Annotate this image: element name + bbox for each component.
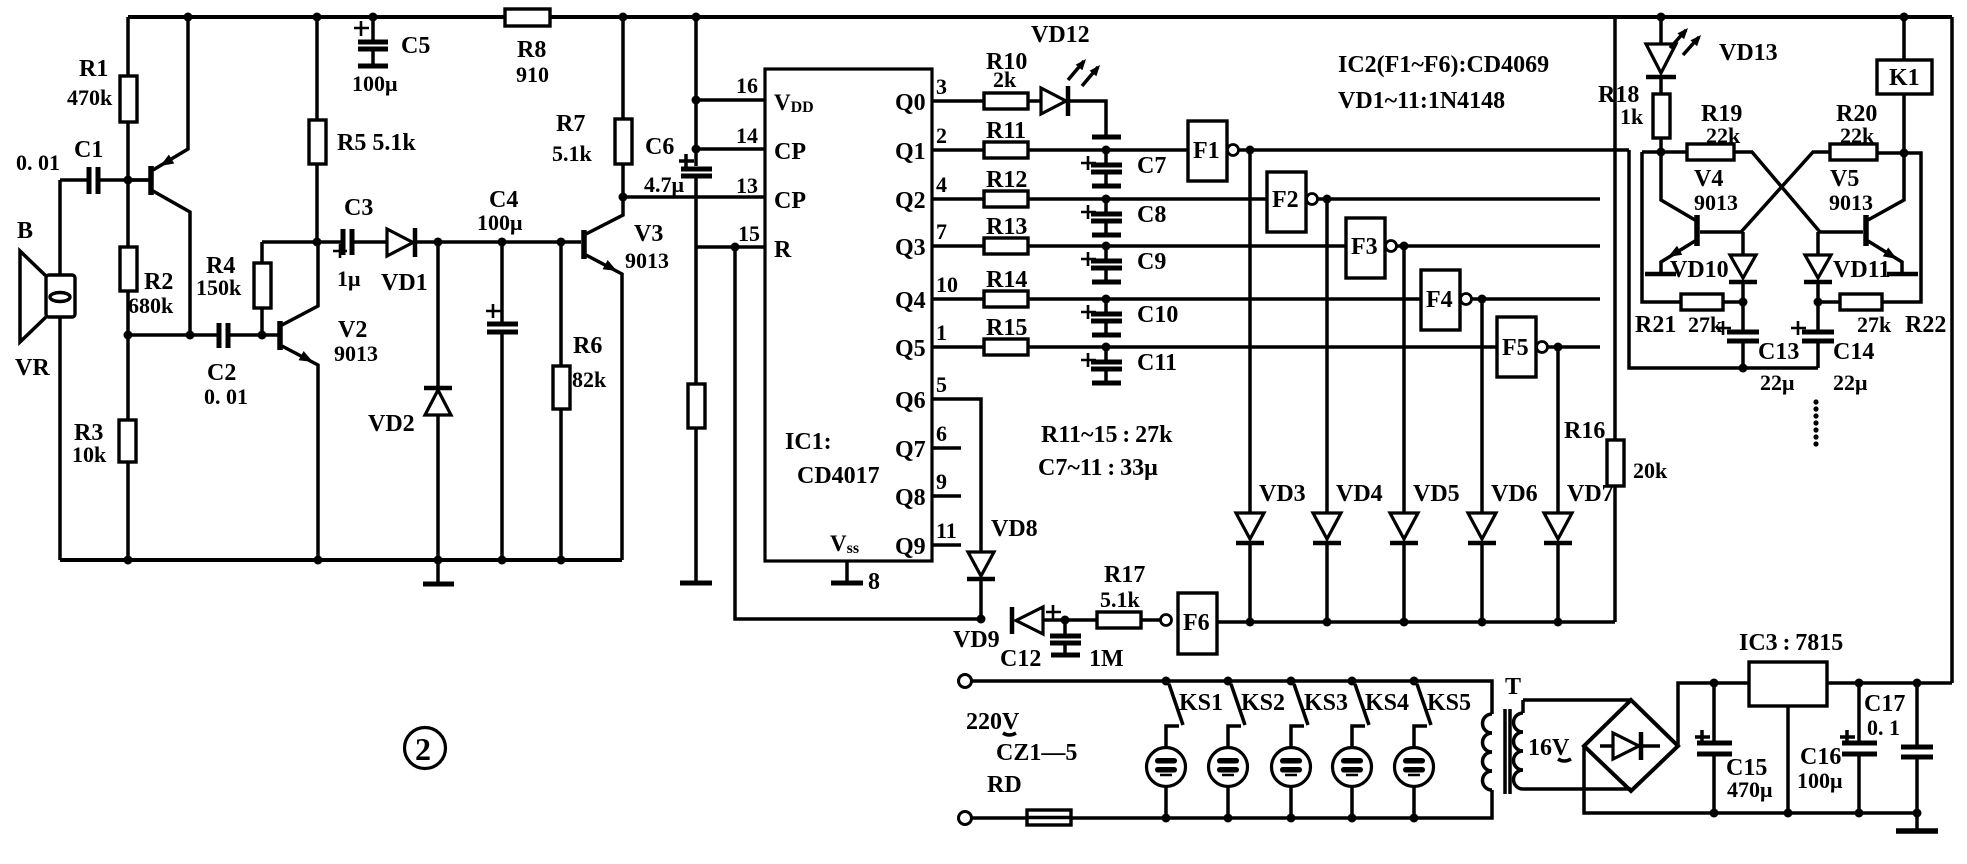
- wire: R10 to VD12: [1028, 99, 1040, 103]
- switch KS3: [1287, 677, 1309, 749]
- diode VD2: [424, 242, 452, 560]
- node: V3 collector / pin13 row: [619, 193, 628, 202]
- node: VD4 at bus: [1323, 618, 1332, 627]
- svg-text:Q4: Q4: [895, 288, 926, 314]
- diode VD5: [1390, 513, 1418, 622]
- wire: C12 to R17: [1065, 618, 1097, 622]
- svg-text:82k: 82k: [572, 367, 607, 392]
- svg-text:KS2: KS2: [1241, 690, 1285, 716]
- wire: Q2 pin stub: [932, 197, 984, 201]
- wire: pin 13 row from V3 collector: [623, 195, 765, 199]
- label 220V: [966, 709, 1020, 735]
- wire: node A segment: [1642, 150, 1687, 154]
- resistor R13: [984, 238, 1028, 254]
- svg-text:VR: VR: [15, 355, 50, 381]
- wire: pin 16 row: [696, 98, 765, 102]
- node: C13 at trigger bus: [1739, 364, 1748, 373]
- svg-text:10k: 10k: [72, 442, 107, 467]
- socket CZ5: [1395, 748, 1434, 787]
- svg-text:IC3 : 7815: IC3 : 7815: [1739, 630, 1843, 656]
- svg-text:20k: 20k: [1633, 458, 1668, 483]
- switch KS2: [1224, 677, 1246, 749]
- svg-text:22k: 22k: [1840, 123, 1875, 148]
- wire: F1 output column: [1248, 150, 1252, 513]
- node: V2 emitter at rail: [314, 556, 323, 565]
- wire: node B segment: [1877, 153, 1921, 302]
- svg-text:C1: C1: [74, 137, 103, 163]
- svg-text:V5: V5: [1830, 166, 1859, 192]
- node: R3 at ground rail: [124, 556, 133, 565]
- svg-text:Q7: Q7: [895, 437, 926, 463]
- continuation dots: [1813, 399, 1818, 446]
- socket CZ3: [1272, 748, 1311, 787]
- svg-text:100μ: 100μ: [477, 210, 523, 235]
- node: F2 output: [1323, 195, 1332, 204]
- svg-text:11: 11: [936, 518, 957, 543]
- node: K1 at rail: [1900, 13, 1909, 22]
- svg-text:VD13: VD13: [1719, 40, 1778, 66]
- wire: F2 output column: [1325, 199, 1329, 513]
- svg-text:R11: R11: [986, 118, 1026, 144]
- capacitor C14: [1802, 302, 1834, 368]
- resistor R17: [1097, 612, 1141, 628]
- wire: socket 4 to bottom bus: [1350, 786, 1354, 818]
- capacitor C4: [487, 242, 518, 560]
- wire: socket 3 to bottom bus: [1289, 786, 1293, 818]
- label 16V: [1528, 735, 1571, 761]
- svg-text:R12: R12: [986, 167, 1027, 193]
- svg-text:B: B: [17, 218, 33, 244]
- wire: bridge minus output: [1584, 746, 1714, 813]
- wire: +15V riser to top rail: [1950, 17, 1954, 683]
- svg-text:VD10: VD10: [1670, 257, 1729, 283]
- svg-text:C6: C6: [645, 134, 674, 160]
- plus sign C4: [486, 304, 501, 318]
- node: F5 output: [1554, 343, 1563, 352]
- terminal: 220V neutral: [959, 812, 972, 825]
- resistor R8 (in rail): [505, 9, 550, 26]
- resistor R14: [984, 291, 1028, 307]
- svg-text:VD2: VD2: [368, 411, 415, 437]
- plus sign C5: [354, 21, 369, 36]
- ground below VD2: [436, 560, 440, 583]
- svg-text:9013: 9013: [1829, 190, 1873, 215]
- svg-text:0. 01: 0. 01: [16, 150, 60, 175]
- svg-text:7: 7: [936, 219, 947, 244]
- bridge rectifier: [1584, 700, 1678, 791]
- wire: Q5 pin stub: [932, 345, 984, 349]
- node: V2 base / R4 bottom: [258, 331, 267, 340]
- svg-text:F5: F5: [1502, 335, 1529, 361]
- svg-text:3: 3: [936, 74, 947, 99]
- svg-text:C11: C11: [1137, 350, 1177, 376]
- resistor R3: [119, 335, 136, 560]
- wire: Q6 to VD8 column: [932, 399, 981, 552]
- svg-text:910: 910: [516, 62, 549, 87]
- svg-text:27k: 27k: [1857, 312, 1892, 337]
- fuse RD: [1027, 810, 1071, 825]
- node: pin16 junction: [692, 96, 701, 105]
- svg-text:Q1: Q1: [895, 139, 926, 165]
- wire: Q3 pin stub: [932, 244, 984, 248]
- svg-text:1M: 1M: [1089, 646, 1124, 672]
- svg-text:2: 2: [936, 123, 947, 148]
- svg-text:1μ: 1μ: [337, 266, 361, 291]
- wire: C1 row: [60, 178, 87, 182]
- resistor R18: [1653, 94, 1670, 152]
- node: C16 bottom: [1855, 809, 1864, 818]
- resistor R6: [553, 242, 570, 560]
- wire: row Q4 to F4 input: [1028, 297, 1421, 301]
- svg-text:100μ: 100μ: [352, 71, 398, 96]
- wire: R19 cross to V5 base: [1734, 152, 1863, 232]
- svg-text:C16: C16: [1800, 744, 1841, 770]
- svg-text:R7: R7: [556, 111, 585, 137]
- node: VD13 at rail: [1657, 13, 1666, 22]
- node: C chain at row Q3: [1102, 242, 1111, 251]
- node B (V5 collector): [1900, 149, 1909, 158]
- wire: F4 output column: [1480, 299, 1484, 513]
- plus sign C15: [1695, 730, 1710, 744]
- wire: row Q5 to F5 input: [1028, 345, 1497, 349]
- node: C chain at row Q2: [1102, 195, 1111, 204]
- resistor R12: [984, 191, 1028, 207]
- svg-text:5: 5: [936, 372, 947, 397]
- node: C4 top: [498, 238, 507, 247]
- node: V2 collector / C3: [313, 238, 322, 247]
- svg-text:10: 10: [936, 272, 958, 297]
- svg-text:R5 5.1k: R5 5.1k: [337, 130, 416, 156]
- svg-text:150k: 150k: [196, 275, 242, 300]
- plus sign C16: [1840, 730, 1855, 744]
- wire: R21 to VD10 node: [1723, 300, 1743, 304]
- node: R6 top: [557, 238, 566, 247]
- node: C15 top: [1710, 679, 1719, 688]
- svg-text:IC2(F1~F6):CD4069: IC2(F1~F6):CD4069: [1338, 52, 1549, 78]
- bottom ground rail (left): [60, 558, 622, 562]
- diode VD12 (LED): [1041, 59, 1106, 132]
- svg-text:CZ1—5: CZ1—5: [996, 740, 1077, 766]
- plus sign C12: [1046, 605, 1061, 619]
- svg-text:V3: V3: [634, 221, 663, 247]
- wire: R4 top to V2 collector node: [262, 240, 317, 244]
- wire: F3 output row: [1404, 244, 1600, 248]
- svg-text:CP: CP: [774, 139, 806, 165]
- svg-text:R6: R6: [573, 333, 602, 359]
- wire: pin 15 row: [696, 245, 765, 249]
- diode VD6: [1468, 513, 1496, 622]
- transistor V3: [584, 197, 623, 560]
- node: C16 top: [1855, 679, 1864, 688]
- wire: row Q3 to F3 input: [1028, 244, 1346, 248]
- speaker B: [20, 251, 75, 342]
- svg-text:R17: R17: [1104, 562, 1145, 588]
- wire: Q8 stub: [932, 494, 961, 498]
- node: VD3 at bus: [1246, 618, 1255, 627]
- svg-text:Q8: Q8: [895, 485, 926, 511]
- svg-text:VD8: VD8: [991, 516, 1038, 542]
- svg-text:CD4017: CD4017: [797, 463, 880, 489]
- wire: Q4 pin stub: [932, 297, 984, 301]
- svg-text:VD1~11:1N4148: VD1~11:1N4148: [1338, 88, 1505, 114]
- diode VD9: [1012, 607, 1064, 634]
- node: C15 bottom: [1710, 809, 1719, 818]
- wire: C2 row: [128, 333, 217, 337]
- wire: R22 to VD11 node: [1818, 300, 1840, 304]
- node: C chain at row Q5: [1102, 343, 1111, 352]
- svg-text:R21: R21: [1635, 312, 1676, 338]
- svg-text:T: T: [1505, 674, 1521, 700]
- svg-text:680k: 680k: [128, 293, 174, 318]
- resistor (POR) below C6: [688, 384, 705, 582]
- node: C6 column at rail: [692, 13, 701, 22]
- capacitor C3: [343, 229, 386, 255]
- diode VD13 (LED): [1646, 17, 1701, 94]
- capacitor C17: [1901, 683, 1933, 813]
- wire: socket 5 to bottom bus: [1412, 786, 1416, 818]
- svg-text:9013: 9013: [334, 341, 378, 366]
- wire: to fuse RD: [972, 816, 1027, 820]
- node: C12 junction: [1061, 616, 1070, 625]
- wire: secondary top to bridge: [1523, 698, 1631, 702]
- svg-text:5.1k: 5.1k: [1100, 587, 1141, 612]
- svg-text:22k: 22k: [1706, 123, 1741, 148]
- svg-text:9013: 9013: [1694, 190, 1738, 215]
- diode VD4: [1313, 513, 1341, 622]
- svg-text:9: 9: [936, 469, 947, 494]
- top power rail: [128, 15, 1952, 19]
- wire: bridge plus output: [1678, 683, 1749, 746]
- node: C4 at rail: [498, 556, 507, 565]
- wire: socket 1 to bottom bus: [1164, 786, 1168, 818]
- svg-text:Q0: Q0: [895, 90, 926, 116]
- node: VD8 at reset row: [977, 615, 986, 624]
- svg-text:F4: F4: [1426, 287, 1453, 313]
- svg-text:KS1: KS1: [1179, 690, 1223, 716]
- switch KS5: [1410, 677, 1432, 749]
- capacitor C16: [1842, 683, 1877, 813]
- svg-text:VD9: VD9: [953, 627, 1000, 653]
- capacitor C10: [1091, 299, 1122, 335]
- wire: trigger bus from F1 row: [1629, 150, 1818, 368]
- node: C17 top: [1913, 679, 1922, 688]
- plus sign C3: [333, 244, 347, 258]
- svg-text:C2: C2: [207, 360, 236, 386]
- inverter F2: [1267, 172, 1327, 232]
- plus sign C10: [1081, 305, 1096, 319]
- diode VD10: [1729, 232, 1757, 302]
- transistor V5: [1866, 153, 1918, 274]
- svg-text:0. 01: 0. 01: [204, 384, 248, 409]
- transformer T secondary: [1514, 700, 1524, 789]
- node: C chain at row Q1: [1102, 146, 1111, 155]
- plus sign C13: [1716, 321, 1731, 335]
- svg-text:R14: R14: [986, 267, 1027, 293]
- svg-text:F2: F2: [1272, 187, 1299, 213]
- diode VD3: [1236, 513, 1264, 622]
- svg-text:C9: C9: [1137, 249, 1166, 275]
- wire: bottom dc rail: [1714, 811, 1917, 815]
- node: V1 collector joins C2 row: [186, 331, 195, 340]
- svg-text:22μ: 22μ: [1833, 370, 1868, 395]
- wire: Q1 pin stub: [932, 148, 984, 152]
- svg-text:KS4: KS4: [1365, 690, 1409, 716]
- capacitor C5: [358, 17, 388, 66]
- wire: F2 output row: [1327, 197, 1600, 201]
- capacitor C15: [1697, 683, 1732, 813]
- wire: F4 output row: [1482, 297, 1600, 301]
- svg-text:100μ: 100μ: [1797, 768, 1843, 793]
- wire: secondary bottom to bridge: [1523, 787, 1631, 791]
- svg-text:C8: C8: [1137, 202, 1166, 228]
- diode VD8: [967, 552, 995, 619]
- node: reset column junction: [731, 243, 740, 252]
- plus sign C7: [1081, 156, 1096, 170]
- svg-text:Q6: Q6: [895, 388, 926, 414]
- socket CZ4: [1333, 748, 1372, 787]
- IC U1 CD4017 box: [765, 69, 932, 561]
- inverter F1: [1188, 121, 1250, 181]
- svg-text:14: 14: [736, 123, 758, 148]
- terminal: 220V live: [959, 675, 972, 688]
- wire: R20 cross to V4 base: [1700, 152, 1830, 232]
- capacitor C1: [89, 167, 150, 194]
- inverter F5: [1497, 317, 1558, 377]
- svg-text:1k: 1k: [1620, 104, 1644, 129]
- svg-text:V2: V2: [338, 317, 367, 343]
- node: V1 base: [124, 176, 133, 185]
- wire: row to C4/V3: [438, 240, 581, 244]
- wire: VDD column x=696: [694, 17, 698, 166]
- svg-text:R2: R2: [144, 269, 173, 295]
- VD12 branch end plate: [1092, 135, 1121, 140]
- socket CZ1: [1147, 748, 1186, 787]
- svg-text:VD1: VD1: [381, 270, 428, 296]
- inverter F4: [1421, 270, 1482, 330]
- svg-text:22μ: 22μ: [1760, 370, 1795, 395]
- resistor R22: [1840, 294, 1882, 310]
- node: VD6 at bus: [1478, 618, 1487, 627]
- node: VD7 at bus: [1554, 618, 1563, 627]
- resistor R19: [1687, 144, 1734, 160]
- svg-text:VD4: VD4: [1336, 481, 1383, 507]
- regulator IC3 7815: [1749, 662, 1827, 813]
- svg-text:4.7μ: 4.7μ: [644, 172, 685, 197]
- wire: R21 branch from node A: [1642, 152, 1681, 302]
- ground at C17: [1896, 809, 1938, 832]
- svg-text:CP: CP: [774, 188, 806, 214]
- node: IC3 gnd at rail: [1784, 809, 1793, 818]
- resistor R5: [309, 17, 326, 242]
- wire: pin 14 row: [696, 147, 765, 151]
- ground below POR resistor: [680, 581, 712, 586]
- svg-text:R1: R1: [79, 56, 108, 82]
- svg-text:R8: R8: [517, 37, 546, 63]
- svg-text:VD3: VD3: [1259, 481, 1306, 507]
- svg-text:VD11: VD11: [1833, 257, 1890, 283]
- resistor R11: [984, 142, 1028, 158]
- svg-text:R16: R16: [1564, 418, 1605, 444]
- svg-text:KS5: KS5: [1427, 690, 1471, 716]
- svg-text:C7~11 : 33μ: C7~11 : 33μ: [1038, 455, 1158, 481]
- wire: F3 output column: [1402, 246, 1406, 513]
- switch KS1: [1162, 677, 1184, 749]
- resistor R2: [120, 180, 137, 335]
- plus sign C11: [1081, 353, 1096, 367]
- node: VD11/R22/C14: [1814, 298, 1823, 307]
- capacitor C2: [219, 323, 262, 348]
- capacitor C12: [1050, 620, 1081, 655]
- relay K1: [1877, 17, 1932, 153]
- node: VD2 at rail: [434, 556, 443, 565]
- node: F3 output: [1400, 242, 1409, 251]
- resistor R10: [984, 93, 1028, 109]
- svg-text:KS3: KS3: [1304, 690, 1348, 716]
- node: VD5 at bus: [1400, 618, 1409, 627]
- wire: Q7 stub: [932, 446, 961, 450]
- svg-text:C17: C17: [1864, 691, 1905, 717]
- wire: speaker/VR left column: [58, 180, 62, 560]
- transformer core: [1505, 709, 1510, 794]
- svg-text:R: R: [774, 237, 792, 263]
- svg-text:Q3: Q3: [895, 235, 926, 261]
- resistor R1: [120, 17, 137, 180]
- node: V1 emitter at rail: [184, 13, 193, 22]
- resistor R7: [615, 17, 632, 197]
- svg-text:VD12: VD12: [1031, 22, 1090, 48]
- wire: KS bottom bus: [1071, 790, 1492, 818]
- inverter F6: [1141, 593, 1217, 654]
- node: F4 output: [1478, 295, 1487, 304]
- svg-text:R13: R13: [986, 214, 1027, 240]
- resistor R16: [1607, 17, 1624, 622]
- svg-text:C12: C12: [1000, 646, 1041, 672]
- wire: F5 output column: [1556, 347, 1560, 513]
- node: VD1 out / VD2 top: [434, 238, 443, 247]
- capacitor C8: [1091, 199, 1122, 235]
- node: pin14 junction: [692, 145, 701, 154]
- node A (V4 collector): [1657, 148, 1666, 157]
- svg-text:RD: RD: [987, 772, 1022, 798]
- svg-text:1: 1: [936, 320, 947, 345]
- capacitor C7: [1091, 150, 1122, 186]
- svg-text:Q9: Q9: [895, 534, 926, 560]
- svg-text:0. 1: 0. 1: [1867, 715, 1900, 740]
- svg-text:C5: C5: [401, 33, 430, 59]
- wire: row Q1 to F1 input: [1028, 148, 1188, 152]
- wire: Q0 pin stub: [932, 99, 984, 103]
- node: KS4 bottom: [1348, 814, 1357, 823]
- wire: F1 output row to flipflop: [1250, 148, 1629, 152]
- svg-text:16: 16: [736, 73, 758, 98]
- svg-text:R15: R15: [986, 315, 1027, 341]
- svg-text:C10: C10: [1137, 302, 1178, 328]
- plus sign C14: [1791, 321, 1806, 335]
- wire: reset column down to VD9 row: [735, 247, 981, 619]
- plus sign C6: [679, 154, 694, 168]
- svg-text:Q5: Q5: [895, 336, 926, 362]
- node: KS2 bottom: [1224, 814, 1233, 823]
- node: KS3 bottom: [1287, 814, 1296, 823]
- node: C5 at rail: [369, 13, 378, 22]
- transistor V2: [262, 242, 318, 560]
- node: R7 at rail: [619, 13, 628, 22]
- svg-text:9013: 9013: [625, 248, 669, 273]
- svg-text:220V: 220V: [966, 709, 1020, 735]
- svg-text:2: 2: [415, 731, 431, 767]
- svg-text:K1: K1: [1889, 65, 1920, 91]
- svg-text:C14: C14: [1833, 339, 1874, 365]
